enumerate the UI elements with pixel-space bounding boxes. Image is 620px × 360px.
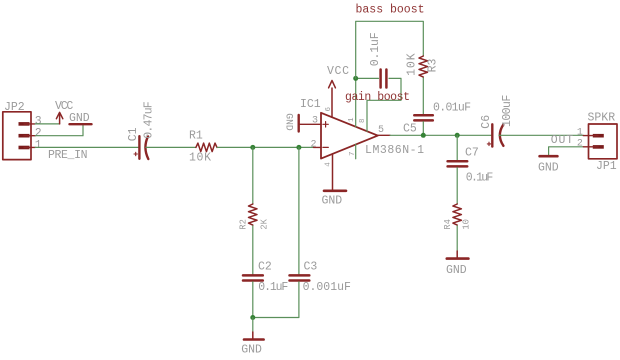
svg-text:C5: C5: [403, 122, 417, 135]
svg-text:JP2: JP2: [4, 101, 25, 114]
svg-text:gain boost: gain boost: [345, 91, 410, 104]
svg-text:10K: 10K: [406, 53, 419, 76]
op-amp pin4 stub to GND: [332, 154, 334, 190]
ground (bottom): [244, 332, 264, 340]
svg-text:1: 1: [348, 117, 356, 122]
svg-text:SPKR: SPKR: [588, 112, 616, 125]
wire R2 to C2: [252, 226, 254, 274]
capacitor C3 0.001uF: [290, 275, 310, 280]
ground (R4): [447, 251, 469, 259]
svg-text:1: 1: [577, 127, 583, 138]
svg-text:1: 1: [35, 139, 42, 152]
connector JP2: [3, 112, 35, 160]
svg-text:0.001uF: 0.001uF: [303, 281, 351, 294]
svg-text:OUT: OUT: [551, 134, 574, 147]
node junction R2: [250, 145, 255, 150]
wire pin1 up to gain junction: [355, 78, 357, 127]
svg-text:R1: R1: [189, 130, 203, 143]
svg-text:2: 2: [311, 140, 317, 151]
wire JP2 pin3 to VCC: [35, 123, 59, 125]
wire gain junction to cap: [356, 77, 379, 79]
wire R4 to GND: [456, 226, 458, 251]
svg-text:2K: 2K: [260, 218, 270, 229]
wire cap to output net: [422, 122, 424, 136]
svg-text:GND: GND: [446, 264, 467, 277]
svg-text:C6: C6: [480, 115, 493, 129]
svg-text:GND: GND: [241, 343, 262, 355]
capacitor gain boost 0.1uF: [381, 70, 387, 88]
node junction bass cap: [421, 133, 426, 138]
wire pin8 up and to gain cap: [367, 78, 401, 131]
resistor R1: [196, 143, 217, 152]
resistor R3 10K: [419, 56, 428, 77]
svg-text:PRE_IN: PRE_IN: [48, 149, 88, 162]
wire C2 to bottom junction: [252, 282, 254, 318]
pin2 stub: [314, 146, 322, 148]
op-amp pin7 stub: [355, 144, 357, 159]
node bottom junction: [250, 315, 255, 320]
svg-text:10K: 10K: [189, 151, 211, 164]
svg-text:0.01uF: 0.01uF: [433, 102, 471, 115]
wire down to C7: [456, 135, 458, 160]
capacitor 0.01uF (bass boost): [414, 115, 433, 120]
svg-text:R4: R4: [443, 219, 453, 230]
svg-text:C1: C1: [127, 127, 140, 141]
svg-text:JP1: JP1: [596, 160, 617, 173]
wire C7 to R4: [456, 168, 458, 204]
wire JP2 pin1 to C1 (PRE_IN): [35, 146, 138, 148]
wire R3 to 0.01uF cap: [422, 78, 424, 114]
ground (op-amp pin3): [299, 115, 321, 132]
svg-text:4: 4: [325, 162, 333, 167]
svg-text:C3: C3: [304, 261, 318, 274]
svg-text:0.47uF: 0.47uF: [143, 101, 156, 138]
capacitor C7 0.1uF: [448, 161, 468, 166]
resistor R4 10: [453, 204, 462, 225]
svg-text:3: 3: [312, 115, 318, 126]
svg-text:LM386N-1: LM386N-1: [365, 144, 424, 157]
svg-text:C7: C7: [465, 146, 479, 159]
wire R1 to op-amp pin2: [217, 146, 313, 148]
svg-text:IC1: IC1: [300, 98, 321, 111]
wire C3 to bottom junction: [253, 282, 299, 318]
svg-text:100uF: 100uF: [501, 95, 514, 127]
node junction C3: [296, 145, 301, 150]
ground (op-amp pin4): [324, 190, 346, 193]
svg-text:GND: GND: [538, 162, 559, 175]
op-amp IC1 triangle: [321, 113, 378, 159]
svg-text:0.1uF: 0.1uF: [369, 32, 382, 66]
svg-text:6: 6: [325, 107, 333, 112]
VCC symbol (left): [56, 112, 62, 124]
ground (JP1): [540, 155, 558, 158]
svg-text:R3: R3: [427, 58, 440, 72]
capacitor C6 100uF (polarized): [492, 124, 503, 146]
svg-text:VCC: VCC: [327, 65, 349, 78]
plus input mark: [323, 122, 328, 127]
svg-text:10: 10: [462, 219, 472, 230]
resistor R2 2K: [249, 204, 258, 225]
op-amp pin6 stub + VCC: [329, 81, 336, 118]
svg-text:0.1uF: 0.1uF: [258, 281, 288, 294]
svg-text:8: 8: [359, 118, 367, 123]
capacitor C1 0.47uF (polarized): [139, 136, 148, 159]
svg-text:GND: GND: [284, 113, 295, 131]
wire down to R2: [252, 147, 254, 204]
svg-text:2: 2: [577, 139, 583, 150]
wire JP1 pin2 to GND: [549, 147, 584, 155]
wire C6 to JP1 pin1: [499, 134, 583, 136]
svg-text:C2: C2: [258, 261, 272, 274]
svg-text:5: 5: [378, 125, 384, 136]
svg-text:R2: R2: [238, 219, 248, 230]
capacitor C2 0.1uF: [243, 275, 263, 280]
svg-text:2: 2: [35, 127, 42, 140]
node gain junction: [353, 76, 358, 81]
minus input mark: [323, 146, 328, 148]
wire JP2 pin2 to GND: [35, 125, 83, 135]
wire bass boost loop: [356, 21, 424, 78]
node junction C7: [455, 133, 460, 138]
ground (JP2): [70, 123, 92, 125]
svg-text:7: 7: [349, 151, 357, 156]
wire junction to GND: [252, 318, 254, 333]
svg-text:0.1uF: 0.1uF: [466, 172, 494, 185]
svg-text:GND: GND: [322, 194, 343, 207]
svg-text:GND: GND: [69, 112, 90, 125]
svg-text:bass boost: bass boost: [356, 4, 425, 17]
connector JP1 (SPKR): [583, 124, 617, 159]
op-amp pin5 stub: [378, 134, 390, 136]
wire down to C3: [298, 147, 300, 274]
wire output to C6: [390, 134, 492, 136]
wire C1 to R1: [146, 146, 196, 148]
